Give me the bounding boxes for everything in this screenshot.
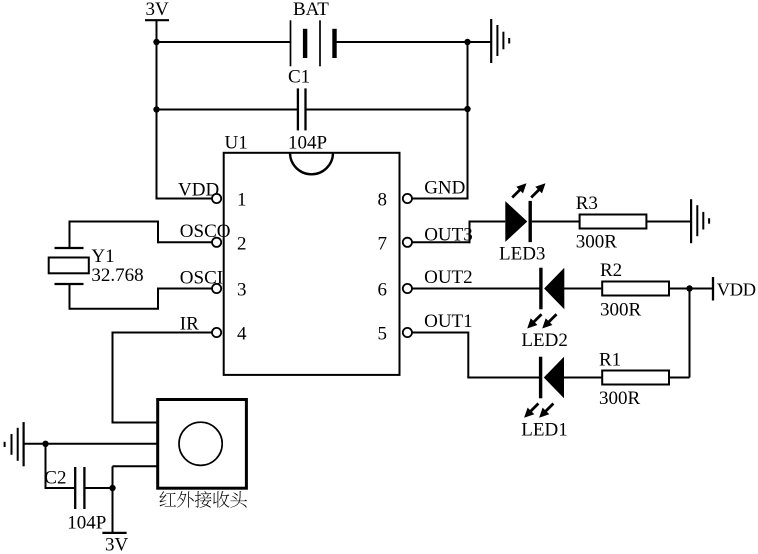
svg-text:OUT2: OUT2 bbox=[424, 267, 473, 288]
svg-text:LED3: LED3 bbox=[499, 244, 545, 265]
svg-text:LED2: LED2 bbox=[521, 330, 567, 351]
ground bbox=[691, 199, 709, 243]
net label OUT1 bbox=[424, 311, 473, 332]
net label IR bbox=[180, 313, 199, 334]
wire bbox=[157, 198, 213, 200]
net label OUT3 bbox=[424, 224, 473, 245]
ground bbox=[5, 422, 24, 466]
svg-text:IR: IR bbox=[180, 313, 199, 334]
junction bbox=[42, 441, 48, 447]
junction bbox=[464, 39, 470, 45]
svg-text:3V: 3V bbox=[146, 0, 170, 20]
svg-text:R3: R3 bbox=[576, 193, 598, 214]
power 3V top bbox=[145, 0, 169, 20]
svg-text:1: 1 bbox=[237, 190, 247, 211]
svg-text:3: 3 bbox=[237, 280, 247, 301]
pin 6 bbox=[378, 280, 413, 301]
svg-text:3V: 3V bbox=[105, 535, 129, 554]
wire bbox=[563, 377, 603, 379]
wire bbox=[112, 488, 114, 533]
resistor R1 bbox=[599, 349, 669, 409]
wire bbox=[646, 221, 691, 223]
svg-text:VDD: VDD bbox=[178, 180, 219, 201]
svg-text:LED1: LED1 bbox=[521, 419, 567, 440]
wire bbox=[563, 288, 602, 290]
svg-text:GND: GND bbox=[424, 178, 465, 199]
power 3V bottom bbox=[102, 533, 128, 554]
LED LED1 bbox=[521, 357, 567, 441]
ground bbox=[491, 19, 509, 63]
wire bbox=[70, 284, 213, 310]
svg-text:U1: U1 bbox=[225, 133, 248, 154]
wire bbox=[412, 198, 469, 200]
resistor R2 bbox=[600, 260, 669, 321]
wire bbox=[45, 487, 75, 489]
junction bbox=[686, 285, 692, 291]
wire bbox=[412, 288, 540, 290]
pin 7 bbox=[378, 234, 413, 255]
net label GND bbox=[424, 178, 465, 199]
wire bbox=[45, 444, 47, 488]
svg-text:8: 8 bbox=[378, 190, 388, 211]
LED LED2 bbox=[521, 268, 567, 351]
junction bbox=[464, 106, 470, 112]
wire bbox=[156, 20, 158, 199]
wire bbox=[690, 288, 714, 290]
LED LED3 bbox=[499, 183, 546, 264]
svg-text:300R: 300R bbox=[576, 232, 618, 253]
svg-text:2: 2 bbox=[237, 234, 247, 255]
wire bbox=[468, 41, 492, 43]
wire bbox=[669, 288, 690, 290]
svg-text:5: 5 bbox=[378, 324, 388, 345]
capacitor C1 bbox=[288, 67, 327, 154]
label 红外接收头 bbox=[159, 491, 246, 508]
svg-text:300R: 300R bbox=[599, 388, 641, 409]
wire bbox=[532, 221, 580, 223]
pin 8 bbox=[378, 190, 413, 211]
junction bbox=[153, 106, 159, 112]
wire bbox=[689, 289, 691, 378]
svg-text:7: 7 bbox=[378, 234, 388, 255]
svg-text:VDD: VDD bbox=[717, 279, 756, 299]
wire bbox=[86, 487, 113, 489]
IR receiver module bbox=[158, 400, 247, 489]
wire bbox=[157, 109, 298, 111]
net label VDD bbox=[178, 180, 219, 201]
wire bbox=[307, 109, 468, 111]
svg-text:C2: C2 bbox=[44, 467, 66, 488]
svg-text:6: 6 bbox=[378, 280, 388, 301]
wire bbox=[336, 41, 469, 43]
svg-text:OSCI: OSCI bbox=[180, 267, 223, 288]
wire bbox=[113, 466, 158, 488]
svg-text:C1: C1 bbox=[288, 67, 310, 88]
svg-text:OUT1: OUT1 bbox=[424, 311, 473, 332]
wire bbox=[412, 332, 540, 378]
svg-text:R2: R2 bbox=[600, 260, 622, 281]
wire bbox=[412, 222, 505, 244]
wire bbox=[112, 332, 213, 423]
svg-text:OSCO: OSCO bbox=[180, 221, 231, 242]
junction bbox=[153, 39, 159, 45]
net label OSCO bbox=[180, 221, 231, 242]
svg-text:300R: 300R bbox=[600, 300, 642, 321]
pin 1 bbox=[212, 190, 247, 211]
resistor R3 bbox=[576, 193, 647, 253]
svg-text:32.768: 32.768 bbox=[91, 265, 143, 286]
wire bbox=[70, 221, 213, 249]
svg-text:104P: 104P bbox=[67, 513, 106, 534]
crystal Y1 bbox=[49, 246, 144, 286]
svg-text:104P: 104P bbox=[288, 133, 327, 154]
pin 2 bbox=[212, 234, 247, 255]
wire bbox=[467, 42, 469, 200]
pin 3 bbox=[212, 280, 247, 301]
svg-text:BAT: BAT bbox=[293, 0, 329, 20]
wire bbox=[24, 443, 158, 445]
wire bbox=[669, 377, 690, 379]
capacitor C2 bbox=[44, 467, 106, 534]
net label OUT2 bbox=[424, 267, 473, 288]
junction bbox=[109, 485, 115, 491]
power VDD bbox=[713, 277, 756, 301]
battery BAT bbox=[291, 0, 335, 66]
net label OSCI bbox=[180, 267, 223, 288]
pin 4 bbox=[212, 324, 247, 345]
wire bbox=[156, 41, 291, 43]
svg-text:R1: R1 bbox=[599, 349, 621, 370]
op-amp U1 body bbox=[224, 133, 400, 375]
svg-text:4: 4 bbox=[237, 324, 247, 345]
pin 5 bbox=[378, 324, 413, 345]
